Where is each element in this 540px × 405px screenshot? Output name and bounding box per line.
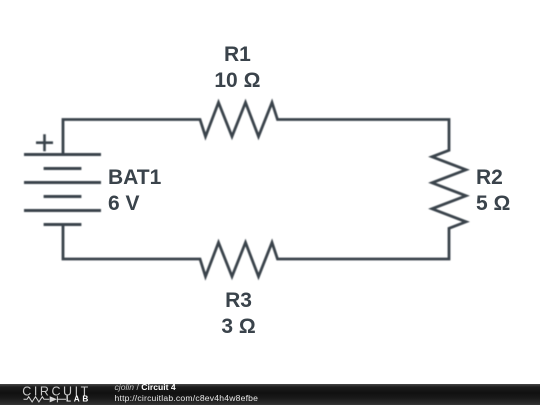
svg-text:LAB: LAB (66, 395, 91, 404)
